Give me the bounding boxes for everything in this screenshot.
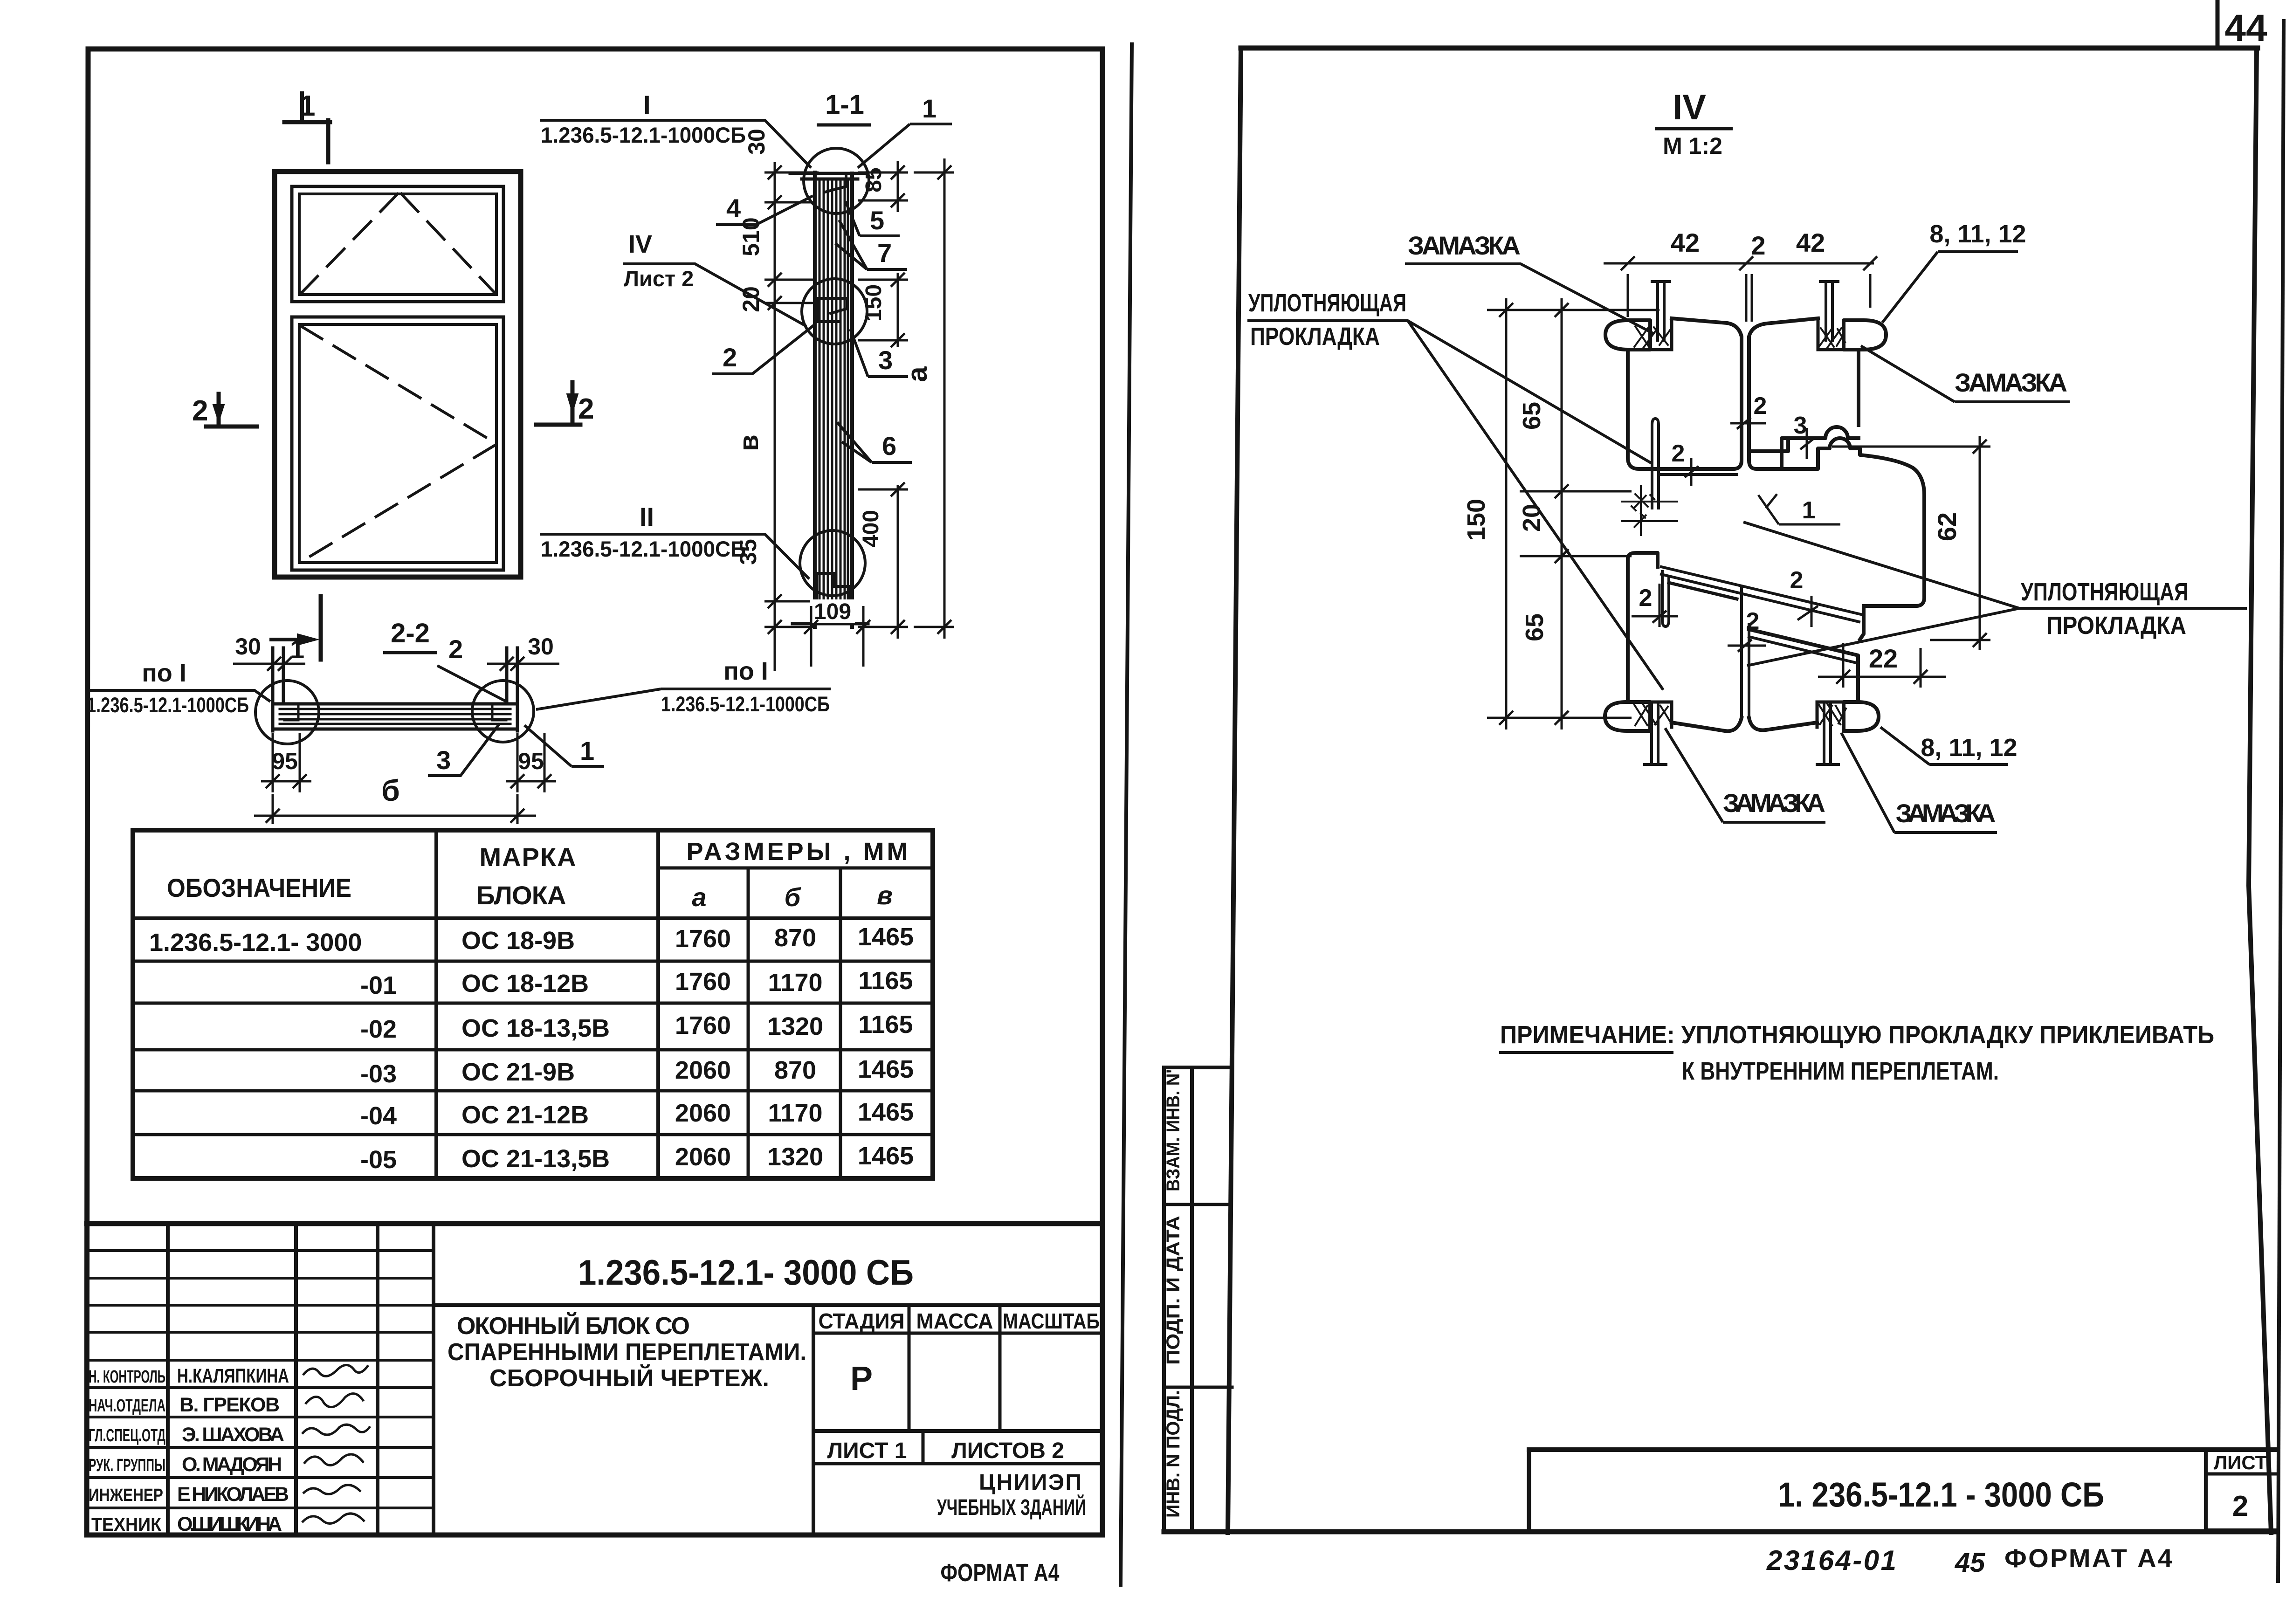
svg-text:85: 85 bbox=[861, 167, 886, 192]
svg-text:ФОРМАТ А4: ФОРМАТ А4 bbox=[2004, 1543, 2172, 1573]
svg-text:ОС 18-9В: ОС 18-9В bbox=[461, 927, 575, 955]
svg-text:65: 65 bbox=[1518, 402, 1546, 430]
svg-text:-05: -05 bbox=[360, 1146, 397, 1174]
svg-text:8, 11, 12: 8, 11, 12 bbox=[1929, 220, 2026, 248]
detail circle middle bbox=[802, 279, 867, 344]
svg-text:8, 11, 12: 8, 11, 12 bbox=[1921, 734, 2017, 762]
svg-text:2060: 2060 bbox=[675, 1056, 731, 1084]
window elevation outer frame bbox=[275, 172, 521, 577]
dim 22 bottom right bbox=[1818, 643, 1946, 688]
member top cap bbox=[790, 173, 866, 179]
svg-text:1.236.5-12.1- 3000: 1.236.5-12.1- 3000 bbox=[149, 929, 362, 957]
svg-text:б: б bbox=[381, 774, 400, 807]
dim 109 bbox=[810, 599, 855, 623]
svg-text:ПОДП. И ДАТА: ПОДП. И ДАТА bbox=[1163, 1216, 1184, 1365]
svg-text:ОБОЗНАЧЕНИЕ: ОБОЗНАЧЕНИЕ bbox=[167, 873, 351, 902]
svg-text:ГЛ.СПЕЦ.ОТД: ГЛ.СПЕЦ.ОТД bbox=[89, 1426, 165, 1445]
svg-text:3: 3 bbox=[1794, 412, 1807, 439]
svg-text:1170: 1170 bbox=[768, 1099, 822, 1127]
svg-text:по I: по I bbox=[723, 657, 768, 685]
svg-text:30: 30 bbox=[744, 129, 770, 155]
svg-text:ЛИСТ: ЛИСТ bbox=[2214, 1452, 2267, 1473]
svg-text:1760: 1760 bbox=[675, 925, 731, 953]
svg-text:45: 45 bbox=[1955, 1548, 1985, 1578]
sash top-left outline bbox=[1667, 318, 1742, 469]
svg-text:44: 44 bbox=[2224, 7, 2267, 49]
svg-text:1: 1 bbox=[1802, 497, 1816, 524]
svg-text:ВЗАМ. ИНВ. N': ВЗАМ. ИНВ. N' bbox=[1163, 1069, 1184, 1191]
svg-text:-02: -02 bbox=[360, 1015, 397, 1043]
gap pair under sash top-left bbox=[1661, 473, 1737, 476]
svg-text:ФОРМАТ А4: ФОРМАТ А4 bbox=[941, 1559, 1060, 1587]
svg-text:ИНЖЕНЕР: ИНЖЕНЕР bbox=[89, 1486, 163, 1505]
page edge line right bbox=[2278, 21, 2284, 1581]
middle-right rail outline (62 element) bbox=[1782, 438, 1924, 606]
svg-text:ТЕХНИК: ТЕХНИК bbox=[91, 1514, 162, 1535]
frame left edge lower bbox=[1628, 553, 1658, 567]
svg-text:1: 1 bbox=[299, 90, 315, 122]
svg-text:1320: 1320 bbox=[767, 1012, 823, 1040]
signatures squiggles bbox=[302, 1365, 370, 1523]
screw bottom-left bbox=[1645, 705, 1666, 764]
svg-text:ЗАМАЗКА: ЗАМАЗКА bbox=[1408, 231, 1521, 260]
svg-text:МАССА: МАССА bbox=[916, 1309, 993, 1333]
svg-text:УПЛОТНЯЮЩАЯ: УПЛОТНЯЮЩАЯ bbox=[1248, 289, 1406, 317]
section mark 1 top bbox=[284, 120, 330, 162]
lower sash opening dashes bbox=[301, 326, 495, 562]
svg-text:7: 7 bbox=[877, 238, 892, 268]
svg-text:ЛИСТ 1: ЛИСТ 1 bbox=[827, 1438, 907, 1463]
small dims at gasket left bbox=[1621, 485, 1678, 536]
dim 62 right bbox=[1832, 436, 1990, 650]
svg-text:МАСШТАБ: МАСШТАБ bbox=[1003, 1309, 1100, 1333]
svg-text:870: 870 bbox=[774, 924, 816, 952]
gasket strip lower bbox=[1662, 571, 1669, 626]
svg-text:2060: 2060 bbox=[675, 1099, 731, 1127]
svg-text:1. 236.5-12.1 - 3000 СБ: 1. 236.5-12.1 - 3000 СБ bbox=[1778, 1475, 2104, 1514]
putty hatch top-left bbox=[1634, 326, 1671, 349]
svg-text:В. ГРЕКОВ: В. ГРЕКОВ bbox=[179, 1394, 280, 1416]
center gap pair bottom bbox=[1742, 588, 1749, 717]
svg-text:2: 2 bbox=[578, 393, 594, 425]
dim line 150 left bbox=[1487, 298, 1659, 729]
screw bottom-right bbox=[1817, 705, 1839, 764]
svg-text:1465: 1465 bbox=[858, 1142, 914, 1170]
svg-text:1465: 1465 bbox=[858, 1098, 914, 1126]
svg-text:65: 65 bbox=[1521, 613, 1549, 641]
svg-text:20: 20 bbox=[1518, 504, 1546, 532]
svg-text:95: 95 bbox=[518, 748, 544, 774]
detail circle bottom bbox=[800, 530, 865, 596]
svg-text:20: 20 bbox=[738, 286, 764, 312]
svg-text:ОС 21-13,5В: ОС 21-13,5В bbox=[461, 1145, 610, 1173]
detail circle 2-2 right bbox=[472, 681, 534, 742]
lower sash inner line bbox=[299, 324, 496, 563]
svg-text:ОС 18-13,5В: ОС 18-13,5В bbox=[461, 1014, 610, 1042]
svg-text:II: II bbox=[640, 502, 654, 531]
svg-text:ЗАМАЗКА: ЗАМАЗКА bbox=[1955, 368, 2067, 397]
sheet 2 border left bbox=[1228, 48, 1241, 1533]
svg-text:150: 150 bbox=[1462, 499, 1490, 541]
svg-text:2: 2 bbox=[1746, 608, 1760, 635]
svg-text:б: б bbox=[785, 882, 801, 912]
glazing bead bottom-right bbox=[1844, 702, 1879, 731]
svg-text:1165: 1165 bbox=[858, 1011, 913, 1039]
sheet 2 border right bbox=[2249, 48, 2271, 1533]
svg-text:5: 5 bbox=[870, 206, 884, 235]
svg-text:30: 30 bbox=[528, 633, 554, 660]
svg-text:МАРКА: МАРКА bbox=[480, 842, 576, 872]
divider line between sheets bbox=[1121, 44, 1132, 1585]
section mark 2 left bbox=[206, 394, 257, 427]
svg-text:Э. ШАХОВА: Э. ШАХОВА bbox=[182, 1424, 284, 1446]
svg-text:62: 62 bbox=[1932, 512, 1962, 541]
svg-text:2: 2 bbox=[1751, 231, 1765, 260]
screw top-right bbox=[1820, 282, 1838, 340]
svg-text:-01: -01 bbox=[360, 971, 397, 999]
sheet 1 border bbox=[87, 49, 1102, 1535]
screw top-left bbox=[1652, 282, 1670, 340]
svg-text:2: 2 bbox=[1639, 585, 1653, 612]
svg-text:2: 2 bbox=[1754, 392, 1767, 420]
bottom edge sash bottom-right bbox=[1749, 718, 1817, 730]
upper sash opening dashes bbox=[301, 194, 496, 294]
svg-text:ОС 21-12В: ОС 21-12В bbox=[461, 1101, 589, 1129]
page number 44 box line bbox=[2216, 0, 2220, 48]
svg-text:ЗАМАЗКА: ЗАМАЗКА bbox=[1723, 788, 1825, 818]
sheet 2 title block bbox=[1529, 1450, 2277, 1532]
sheet 2 border top bbox=[1241, 46, 2258, 51]
svg-text:1.236.5-12.1-1000СБ: 1.236.5-12.1-1000СБ bbox=[87, 693, 249, 717]
putty hatch bottom-right bbox=[1819, 704, 1846, 725]
svg-text:а: а bbox=[692, 882, 706, 912]
svg-text:1465: 1465 bbox=[858, 1055, 914, 1083]
section mark 1 in 2-2 bbox=[269, 638, 308, 641]
lower sash outer line bbox=[292, 317, 503, 570]
dim line 42 2 42 top bbox=[1604, 256, 1877, 322]
svg-text:3: 3 bbox=[878, 345, 893, 375]
svg-text:ПРОКЛАДКА: ПРОКЛАДКА bbox=[2046, 612, 2186, 640]
svg-text:О.ШИШКИНА: О.ШИШКИНА bbox=[177, 1513, 282, 1535]
svg-text:23164-01: 23164-01 bbox=[1766, 1545, 1896, 1576]
svg-text:ОС 21-9В: ОС 21-9В bbox=[461, 1058, 575, 1086]
svg-text:Н.КАЛЯПКИНА: Н.КАЛЯПКИНА bbox=[177, 1365, 289, 1387]
svg-text:1.236.5-12.1-1000СБ: 1.236.5-12.1-1000СБ bbox=[661, 692, 830, 716]
svg-text:2: 2 bbox=[448, 634, 463, 664]
svg-text:ЛИСТОВ 2: ЛИСТОВ 2 bbox=[951, 1438, 1064, 1463]
svg-text:2: 2 bbox=[723, 343, 737, 372]
svg-text:35: 35 bbox=[735, 539, 761, 565]
gasket strip top (уплотняющая прокладка) bbox=[1652, 419, 1659, 508]
svg-text:Р: Р bbox=[850, 1360, 873, 1397]
svg-text:150: 150 bbox=[861, 284, 886, 322]
svg-text:УПЛОТНЯЮЩАЯ: УПЛОТНЯЮЩАЯ bbox=[2021, 578, 2189, 606]
upper sash inner line bbox=[299, 194, 496, 295]
svg-text:РУК. ГРУППЫ: РУК. ГРУППЫ bbox=[89, 1456, 165, 1475]
member bottom block bbox=[817, 573, 849, 602]
svg-text:400: 400 bbox=[859, 510, 883, 547]
member inner glazing lines bbox=[819, 179, 848, 622]
svg-text:1: 1 bbox=[580, 736, 594, 765]
svg-text:1.236.5-12.1- 3000 СБ: 1.236.5-12.1- 3000 СБ bbox=[578, 1253, 914, 1293]
svg-text:НАЧ.ОТДЕЛА: НАЧ.ОТДЕЛА bbox=[89, 1396, 165, 1416]
svg-text:УЧЕБНЫХ ЗДАНИЙ: УЧЕБНЫХ ЗДАНИЙ bbox=[937, 1494, 1086, 1520]
middle slant pair (meeting bevel) bbox=[1661, 567, 1861, 622]
svg-text:СПАРЕННЫМИ ПЕРЕПЛЕТАМИ.: СПАРЕННЫМИ ПЕРЕПЛЕТАМИ. bbox=[448, 1339, 806, 1366]
side strip boxes bbox=[1164, 1067, 1232, 1532]
detail circle top bbox=[804, 148, 869, 213]
glazing bead top-left bbox=[1605, 320, 1650, 350]
section mark 1 bottom bbox=[319, 596, 323, 660]
svg-text:2-2: 2-2 bbox=[391, 618, 430, 648]
right end block bbox=[492, 704, 515, 720]
svg-text:42: 42 bbox=[1796, 228, 1825, 257]
svg-text:2: 2 bbox=[192, 395, 208, 427]
svg-text:-04: -04 bbox=[360, 1102, 397, 1130]
section mark 2 right bbox=[536, 382, 580, 425]
svg-text:2060: 2060 bbox=[675, 1143, 731, 1171]
svg-text:1165: 1165 bbox=[858, 967, 913, 995]
svg-text:IV: IV bbox=[1673, 88, 1706, 127]
svg-text:IV: IV bbox=[628, 230, 652, 258]
left jamb bbox=[273, 648, 283, 731]
svg-text:95: 95 bbox=[272, 748, 298, 774]
svg-text:6: 6 bbox=[882, 431, 896, 461]
svg-text:30: 30 bbox=[235, 633, 261, 660]
svg-text:1465: 1465 bbox=[858, 923, 914, 951]
svg-text:Н. КОНТРОЛЬ: Н. КОНТРОЛЬ bbox=[89, 1367, 165, 1387]
svg-text:22: 22 bbox=[1869, 644, 1898, 673]
svg-text:в: в bbox=[877, 881, 893, 910]
svg-text:О. МАДОЯН: О. МАДОЯН bbox=[182, 1453, 282, 1476]
svg-text:1760: 1760 bbox=[675, 1012, 731, 1039]
sheet 2 border bottom bbox=[1164, 1529, 2277, 1535]
svg-text:1170: 1170 bbox=[768, 969, 822, 997]
svg-text:1760: 1760 bbox=[675, 968, 731, 996]
svg-text:42: 42 bbox=[1671, 228, 1700, 257]
detail circle 2-2 left bbox=[255, 681, 319, 744]
member middle block bbox=[818, 298, 847, 322]
svg-text:3: 3 bbox=[436, 745, 451, 775]
svg-text:М 1:2: М 1:2 bbox=[1663, 133, 1722, 159]
left end block bbox=[276, 704, 298, 720]
svg-text:1320: 1320 bbox=[767, 1143, 823, 1171]
svg-text:1: 1 bbox=[922, 94, 936, 123]
putty hatch bottom-left bbox=[1634, 704, 1671, 725]
dim line far right of 1-1 bbox=[914, 158, 954, 639]
svg-text:СТАДИЯ: СТАДИЯ bbox=[819, 1309, 905, 1333]
glazing bead top-right bbox=[1844, 320, 1886, 350]
svg-text:1.236.5-12.1-1000СБ: 1.236.5-12.1-1000СБ bbox=[541, 123, 746, 147]
svg-text:1: 1 bbox=[290, 634, 304, 664]
svg-text:109: 109 bbox=[814, 599, 851, 624]
svg-text:2: 2 bbox=[2232, 1490, 2248, 1522]
right jamb bbox=[507, 648, 517, 731]
svg-text:Е НИКОЛАЕВ: Е НИКОЛАЕВ bbox=[177, 1483, 289, 1506]
svg-text:РАЗМЕРЫ , ММ: РАЗМЕРЫ , ММ bbox=[687, 838, 908, 866]
svg-text:Лист 2: Лист 2 bbox=[624, 266, 694, 291]
svg-text:по I: по I bbox=[142, 659, 186, 687]
sash bottom-left outline bbox=[1669, 583, 1737, 599]
svg-text:ОС 18-12В: ОС 18-12В bbox=[461, 970, 589, 998]
svg-text:2: 2 bbox=[1672, 440, 1685, 467]
svg-text:ПРОКЛАДКА: ПРОКЛАДКА bbox=[1250, 323, 1380, 351]
svg-text:1.236.5-12.1-1000СБ: 1.236.5-12.1-1000СБ bbox=[541, 537, 746, 561]
svg-text:510: 510 bbox=[738, 217, 764, 256]
svg-text:870: 870 bbox=[774, 1056, 816, 1084]
dim line left of 1-1 bbox=[764, 162, 819, 671]
svg-text:-03: -03 bbox=[360, 1060, 397, 1088]
svg-text:К ВНУТРЕННИМ ПЕРЕПЛЕТАМ.: К ВНУТРЕННИМ ПЕРЕПЛЕТАМ. bbox=[1682, 1057, 1999, 1085]
svg-text:в: в bbox=[734, 434, 764, 451]
member outer lines bbox=[815, 172, 852, 627]
svg-text:2: 2 bbox=[1790, 567, 1804, 594]
svg-text:1-1: 1-1 bbox=[825, 89, 864, 120]
dim line right of 1-1 inner bbox=[858, 161, 908, 639]
glazing bead bottom-left bbox=[1605, 702, 1650, 731]
svg-text:ЗАМАЗКА: ЗАМАЗКА bbox=[1896, 798, 1996, 828]
putty hatch at joint left bbox=[1632, 494, 1654, 518]
member horizontal lines bbox=[273, 704, 517, 729]
svg-text:ОКОННЫЙ БЛОК СО: ОКОННЫЙ БЛОК СО bbox=[457, 1312, 690, 1340]
svg-text:а: а bbox=[902, 366, 933, 382]
svg-text:ПРИМЕЧАНИЕ: УПЛОТНЯЮЩУЮ ПРОКЛА: ПРИМЕЧАНИЕ: УПЛОТНЯЮЩУЮ ПРОКЛАДКУ ПРИКЛЕ… bbox=[1500, 1021, 2214, 1049]
svg-text:БЛОКА: БЛОКА bbox=[476, 881, 566, 910]
upper sash outer line bbox=[292, 186, 503, 302]
svg-text:СБОРОЧНЫЙ ЧЕРТЕЖ.: СБОРОЧНЫЙ ЧЕРТЕЖ. bbox=[489, 1364, 769, 1392]
sash top-right outline bbox=[1749, 318, 1818, 469]
member top corner block bbox=[815, 173, 846, 192]
putty hatch top-right bbox=[1819, 327, 1845, 348]
sash bottom-right outline bbox=[1749, 629, 1858, 702]
svg-text:I: I bbox=[643, 90, 651, 119]
svg-text:ИНВ. N ПОДЛ.: ИНВ. N ПОДЛ. bbox=[1163, 1390, 1184, 1518]
bottom edge sash bottom-left bbox=[1672, 718, 1742, 731]
